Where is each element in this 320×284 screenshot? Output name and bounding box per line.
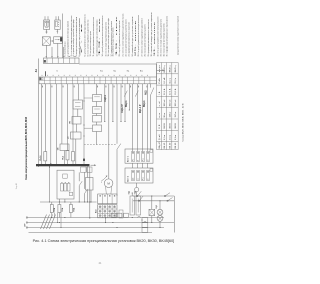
svg-text:23,2 А: 23,2 А bbox=[174, 88, 177, 95]
wire drop 2 upper bbox=[44, 84, 46, 152]
contact mark 1 bbox=[124, 91, 127, 97]
bus terminal block a bbox=[81, 167, 87, 172]
svg-text:N: N bbox=[148, 160, 150, 161]
svg-text:4,5 м: 4,5 м bbox=[169, 135, 171, 141]
wire drop 8 bbox=[78, 84, 80, 100]
svg-text:34. насоса реле контактора пу: 34. насоса реле контактора пускателя bbox=[164, 23, 166, 57]
series rect row a bbox=[142, 218, 148, 223]
svg-text:5. матора автоматического выкл: 5. матора автоматического выключателя кл… bbox=[76, 16, 78, 56]
svg-text:КЦ1.2 Р: КЦ1.2 Р bbox=[122, 104, 124, 113]
connector grid X3 bbox=[98, 205, 117, 218]
bus continuation arrow bbox=[91, 164, 95, 166]
plug X1 crossed box bbox=[42, 37, 50, 46]
terminal strip XT1 bbox=[43, 58, 79, 63]
QF1 top module bbox=[63, 174, 67, 178]
svg-text:380 В: 380 В bbox=[164, 123, 166, 129]
S1 terminal stub a bbox=[44, 16, 46, 20]
svg-text:РЬ: РЬ bbox=[133, 159, 135, 161]
wire M boxes to left bus bbox=[84, 97, 93, 99]
svg-text:6,3 м: 6,3 м bbox=[175, 135, 177, 141]
svg-text:РЬ5: РЬ5 bbox=[63, 156, 65, 160]
svg-text:13. ек: 13. ек bbox=[99, 18, 101, 57]
junction box XK bbox=[86, 178, 94, 191]
Vent1 corner notch bbox=[150, 150, 153, 153]
svg-text:22. асоса реле контактора пуск: 22. асоса реле контактора пускателя тран… bbox=[126, 18, 128, 56]
svg-text:30. я клеммной колодки при уст: 30. я клеммной колодки при установке пер… bbox=[150, 12, 153, 56]
wire SA to line bbox=[151, 216, 153, 223]
svg-text:20. и цепей управления вентил: 20. и цепей управления вентилятора вып bbox=[118, 20, 121, 57]
svg-text:U, В: U, В bbox=[159, 124, 161, 129]
inter-strip stub bbox=[45, 71, 47, 76]
wire contact branch a bbox=[78, 172, 80, 181]
svg-text:23. форматора автоматического: 23. форматора автоматического выключат bbox=[128, 22, 131, 57]
svg-text:21. нено по схеме подключения: 21. нено по схеме подключения двигателя … bbox=[122, 13, 124, 56]
junction dots bottom bbox=[89, 217, 90, 218]
svg-text:19. чек: 19. чек bbox=[116, 16, 118, 56]
Vent1 slot ticks bbox=[132, 152, 133, 154]
XT1 dark cell bbox=[44, 60, 46, 62]
switch S1 inner contacts bbox=[45, 21, 47, 26]
svg-text:Рис. 4.1 Схема электрическая п: Рис. 4.1 Схема электрическая принципиаль… bbox=[33, 238, 175, 243]
wire grid down bbox=[105, 218, 107, 223]
svg-text:12. леммной колодки при устано: 12. леммной колодки при установке перемы… bbox=[95, 20, 98, 57]
phase link c bbox=[60, 213, 62, 228]
relay K3 box bbox=[60, 144, 69, 151]
X2 inner mark bbox=[55, 39, 59, 41]
wire drop 6 lower bbox=[67, 160, 69, 164]
relay M2 box bbox=[93, 107, 102, 114]
svg-text:14. и цепей управления вентиля: 14. и цепей управления вентилятора выпол… bbox=[101, 15, 104, 57]
wire node b bbox=[63, 47, 65, 58]
svg-text:24. клеммной колодки при уста: 24. клеммной колодки при установке перем… bbox=[131, 16, 134, 57]
wire M2-M3 bbox=[96, 114, 98, 116]
svg-text:137 кг: 137 кг bbox=[175, 111, 177, 117]
svg-text:I, А: I, А bbox=[158, 91, 161, 95]
S2 terminal stub a bbox=[55, 16, 57, 20]
svg-text:Вент 2: Вент 2 bbox=[128, 176, 130, 182]
wire drop 7 lower bbox=[72, 161, 74, 164]
svg-text:ВК 60: ВК 60 bbox=[175, 142, 177, 148]
connector Vent2 box bbox=[125, 168, 153, 183]
wire drop 2 lower bbox=[44, 161, 46, 164]
svg-text:26. й и цепей управления венти: 26. й и цепей управления вентилятора вып… bbox=[137, 14, 140, 56]
switch S2 body bbox=[55, 20, 60, 29]
svg-text:В: В bbox=[138, 160, 140, 161]
plug X1 arrow bbox=[50, 40, 52, 42]
fuse FL1 bbox=[51, 202, 53, 205]
crossed box SA bbox=[149, 209, 155, 215]
wire long left upper bbox=[83, 84, 85, 164]
fuse FL2 bbox=[58, 202, 60, 205]
neutral line N bbox=[29, 232, 153, 234]
svg-text:118 кг: 118 кг bbox=[169, 112, 171, 118]
svg-text:7. к: 7. к bbox=[81, 23, 83, 57]
svg-text:КЦ1: КЦ1 bbox=[156, 205, 158, 208]
svg-text:380 В: 380 В bbox=[175, 123, 177, 129]
Vent1 pin slots bbox=[132, 152, 135, 162]
wire mid motor feed bbox=[108, 84, 110, 179]
wire QF1 out a bbox=[58, 199, 60, 202]
svg-text:РЬ1,6: РЬ1,6 bbox=[40, 156, 42, 161]
relay coil KM1 bbox=[130, 196, 135, 215]
connector upper row bbox=[98, 194, 117, 204]
series rect row b bbox=[142, 223, 148, 228]
wire drop 4 bbox=[55, 84, 57, 164]
svg-text:18. клеммной колодки при устан: 18. клеммной колодки при установк bbox=[112, 27, 115, 56]
svg-text:ВКg 45: ВКg 45 bbox=[159, 141, 161, 149]
svg-text:ВЦ2.1: ВЦ2.1 bbox=[126, 100, 128, 107]
fuse FU1 bbox=[44, 152, 47, 161]
relay coil KM2 bbox=[136, 196, 141, 215]
RCD box QF1 bbox=[57, 170, 74, 199]
svg-text:ВК 60: ВК 60 bbox=[169, 142, 171, 148]
wire drop 3 bbox=[50, 84, 52, 164]
XT2 pin numbers bbox=[42, 74, 43, 77]
svg-text:N: N bbox=[148, 179, 150, 180]
data table grid bbox=[156, 63, 158, 150]
svg-text:2: 2 bbox=[101, 182, 102, 184]
wires between Vent boxes bbox=[132, 163, 134, 168]
XT1 cell dividers bbox=[46, 58, 48, 63]
switch SB1 bbox=[164, 195, 165, 196]
svg-text:25. ычек: 25. ычек bbox=[135, 20, 137, 56]
svg-text:тип уст: тип уст bbox=[159, 65, 161, 72]
XT2 cell dividers bbox=[44, 77, 46, 84]
relay B0 inner bbox=[75, 101, 81, 103]
svg-text:m, кг: m, кг bbox=[159, 113, 161, 118]
wire mid 1 bbox=[104, 84, 106, 122]
terminal strip XT2 bbox=[39, 77, 157, 84]
motor M1 circle bbox=[104, 179, 113, 188]
wire junction box out b bbox=[90, 190, 92, 202]
wire drop 7 upper bbox=[72, 84, 74, 152]
control line 1 bbox=[133, 195, 174, 197]
wire fan feed 2 bbox=[137, 84, 139, 152]
hook contact a bbox=[138, 216, 141, 217]
hook contact b bbox=[144, 221, 147, 222]
wire fan feed 1 bbox=[132, 84, 134, 152]
XT1 pin number marks bbox=[46, 55, 47, 58]
S1 terminal stub b bbox=[47, 16, 49, 20]
phase link b bbox=[57, 213, 59, 223]
svg-text:11. рматора автоматического вы: 11. рматора автоматического выключателя … bbox=[93, 16, 95, 56]
svg-text:(продолжение) схема подключени: (продолжение) схема подключения аппарато… bbox=[178, 15, 180, 55]
fuse FL3 bbox=[70, 202, 72, 205]
relay M4 box bbox=[93, 125, 102, 132]
svg-text:35. нсформатора автоматическог: 35. нсформатора автоматического выключат… bbox=[166, 15, 169, 56]
svg-text:ВК20 q: ВК20 q bbox=[164, 65, 166, 73]
svg-text:АЦ1: АЦ1 bbox=[145, 90, 148, 95]
svg-text:ВК30 q: ВК30 q bbox=[169, 65, 171, 73]
svg-text:Схема ВК20, ВК30, ВК45, ВК60 -: Схема ВК20, ВК30, ВК45, ВК60 - 42 В bbox=[182, 103, 184, 141]
relay M3 box bbox=[93, 116, 102, 123]
lamp box X2 bbox=[54, 37, 63, 44]
svg-text:10. оса реле контактора пуска: 10. оса реле контактора пуска bbox=[90, 31, 92, 57]
wire M1-M2 bbox=[96, 102, 98, 107]
wire S2 to strip A bbox=[57, 43, 59, 58]
svg-text:4. са реле контактора пускател: 4. са реле контактора пускателя трансфор bbox=[72, 19, 75, 57]
motor funnel bbox=[105, 186, 108, 194]
switch SQ1 diagonal bbox=[117, 144, 121, 150]
relay M1 box bbox=[93, 95, 102, 102]
svg-text:КЦ1.1 Р: КЦ1.1 Р bbox=[140, 104, 142, 113]
svg-text:КЦ1: КЦ1 bbox=[129, 191, 131, 194]
fuse FU3 bbox=[72, 152, 75, 161]
wire K2 to bus bbox=[75, 139, 77, 164]
relay K2 box bbox=[71, 132, 82, 139]
svg-text:1. обозначение про: 1. обозначение про bbox=[65, 41, 67, 57]
contact AC diagonal bbox=[151, 88, 154, 95]
wire node a bbox=[51, 47, 53, 58]
wire M4 down bbox=[96, 132, 98, 145]
series rect row c bbox=[142, 228, 148, 233]
svg-text:КЦ2: КЦ2 bbox=[135, 191, 137, 194]
wire M3-M4 bbox=[96, 122, 98, 125]
svg-text:27. лнено по схеме подключения: 27. лнено по схеме подключения двигателя… bbox=[142, 17, 144, 56]
S1 lower stub bbox=[46, 29, 48, 33]
svg-text:КЦ2.1: КЦ2.1 bbox=[105, 95, 107, 102]
switch SB3 bbox=[137, 195, 138, 196]
plug circle below Vent2 bbox=[135, 188, 139, 192]
svg-text:33. олнено по схеме подключени: 33. олнено по схеме подключения двигател… bbox=[161, 18, 163, 56]
switch SB2 bbox=[167, 200, 168, 201]
wire mid 3 bbox=[120, 84, 122, 122]
phase line L1 bbox=[28, 217, 165, 219]
svg-text:2. цепей управления вентилятор: 2. цепей управления вентилятора выполн bbox=[67, 20, 70, 56]
wire fan feed 4 bbox=[147, 84, 149, 152]
contact mark 2 bbox=[135, 91, 138, 97]
wire long left lower bbox=[89, 167, 91, 219]
wire lamp feed bbox=[159, 201, 161, 210]
svg-text:29. сформатора автоматического: 29. сформатора автоматического выключате… bbox=[147, 19, 150, 57]
wire into M1 bbox=[96, 84, 98, 95]
wire drop 6 upper bbox=[67, 84, 69, 151]
wire drop 5 upper bbox=[61, 84, 63, 144]
aux rect right of grid bbox=[119, 210, 123, 218]
svg-text:ВЦ1.1: ВЦ1.1 bbox=[144, 100, 146, 107]
fuse FU2 bbox=[66, 151, 69, 160]
QF1 pole marks bbox=[61, 181, 62, 184]
contact boxes on line1 bbox=[112, 213, 117, 217]
svg-text:930 об: 930 об bbox=[175, 99, 177, 106]
S2 inner contacts bbox=[56, 21, 58, 26]
wire K3 to bus bbox=[64, 151, 66, 165]
box A1 top edge bbox=[79, 63, 157, 65]
phase line L2 bbox=[28, 222, 175, 224]
wire left of QF1 bbox=[49, 166, 51, 202]
svg-text:Р, кВт: Р, кВт bbox=[159, 78, 161, 84]
wire exit arrow bbox=[157, 69, 163, 71]
M1 inner bbox=[94, 96, 100, 98]
svg-text:ВК 45: ВК 45 bbox=[164, 142, 166, 148]
wire mid 5 bbox=[128, 84, 130, 110]
phase link a bbox=[54, 213, 56, 218]
lamp HL1 bbox=[157, 209, 163, 215]
svg-text:930 об: 930 об bbox=[164, 99, 166, 106]
XT2 dark ticks bbox=[40, 78, 41, 80]
svg-text:12,4 А: 12,4 А bbox=[163, 88, 166, 95]
wire B0-K1 bbox=[77, 109, 79, 117]
S2 lower stub bbox=[56, 29, 58, 33]
wire junction box out a bbox=[87, 190, 89, 202]
bus terminal block b bbox=[87, 167, 92, 172]
wire vertical bus to top bbox=[62, 14, 64, 59]
QF1 pole cells bbox=[61, 183, 64, 191]
wire K1-K2 bbox=[76, 124, 78, 132]
svg-text:Вент: Вент bbox=[95, 209, 97, 213]
right edge wire bbox=[173, 196, 175, 233]
phase line L3 bbox=[28, 227, 165, 229]
svg-text:28. насоса реле контактора пус: 28. насоса реле контактора пускател bbox=[145, 24, 147, 56]
wire SA feed bbox=[151, 196, 153, 209]
distribution line bbox=[40, 201, 97, 203]
QF1 notch bbox=[69, 192, 72, 195]
wire fan feed 3 bbox=[142, 84, 144, 152]
wire lamp to line bbox=[159, 221, 161, 227]
svg-text:1 щв 18: 1 щв 18 bbox=[16, 183, 18, 189]
box A1 right edge bbox=[156, 64, 158, 77]
switch SB4 bbox=[138, 200, 139, 201]
motor flexible-link arrow bbox=[102, 177, 107, 181]
Vent2 corner notch bbox=[150, 169, 153, 172]
wire into junction box bbox=[87, 167, 89, 178]
S2 terminal stub b bbox=[58, 16, 60, 20]
wire QF1 out b bbox=[64, 199, 66, 202]
XT2 mid line bbox=[39, 79, 157, 81]
relay B0 box bbox=[73, 100, 83, 109]
svg-text:ДВ: ДВ bbox=[133, 178, 135, 180]
svg-text:Q, м3: Q, м3 bbox=[159, 134, 161, 140]
svg-text:380 В: 380 В bbox=[169, 123, 171, 129]
svg-text:17,1 А: 17,1 А bbox=[168, 88, 171, 95]
svg-text:8,2 кВ: 8,2 кВ bbox=[164, 77, 166, 84]
wire right drop bbox=[150, 84, 152, 88]
svg-text:ВК45 q: ВК45 q bbox=[175, 65, 177, 73]
svg-text:Вент 1: Вент 1 bbox=[128, 156, 130, 162]
wire number tags below XT2 bbox=[41, 86, 44, 88]
svg-text:15,2 к: 15,2 к bbox=[175, 78, 177, 84]
wire contact branch b bbox=[84, 172, 86, 189]
wire mid 4 bbox=[124, 84, 126, 122]
lamp HL2 bbox=[157, 216, 163, 222]
dashed control line bbox=[84, 144, 117, 146]
switch S1 body bbox=[44, 20, 50, 29]
M2 inner bbox=[94, 108, 100, 110]
cable hatch marks bbox=[41, 215, 47, 230]
wire mid long bbox=[116, 84, 118, 144]
svg-text:16. соса реле контактора пуска: 16. соса реле контактора пускателя транс… bbox=[107, 18, 110, 57]
wire below Vent2 bbox=[136, 183, 138, 187]
svg-text:11,2 к: 11,2 к bbox=[169, 78, 171, 84]
svg-text:32. ей и цепей управления вент: 32. ей и цепей управления вентилятора вы… bbox=[156, 16, 159, 57]
wire S1 to strip A bbox=[45, 45, 47, 58]
svg-text:n, об: n, об bbox=[159, 101, 161, 107]
Vent2 pin slots bbox=[132, 171, 135, 181]
svg-text:8. цепей управления вентилято: 8. цепей управления вентилятора выполнен… bbox=[84, 14, 87, 57]
box A1 left edge bbox=[38, 59, 40, 168]
svg-text:930 об: 930 об bbox=[169, 99, 171, 106]
svg-text:3,2 м: 3,2 м bbox=[164, 135, 166, 141]
wire drop 1 bbox=[40, 84, 42, 164]
X2 dark segment bbox=[60, 37, 62, 41]
Vent2 slot ticks bbox=[132, 171, 133, 173]
panel bus bar (thick) bbox=[36, 164, 90, 166]
svg-text:96 кг: 96 кг bbox=[164, 113, 166, 118]
svg-text:Схема электрическая принципиал: Схема электрическая принципиальная ВК20,… bbox=[25, 116, 28, 180]
control line 2 bbox=[133, 200, 174, 202]
connector Vent1 box bbox=[125, 149, 153, 163]
relay K1 box bbox=[72, 117, 81, 125]
wire mid 2 bbox=[112, 84, 114, 122]
svg-text:31. мычек: 31. мычек bbox=[154, 22, 156, 57]
